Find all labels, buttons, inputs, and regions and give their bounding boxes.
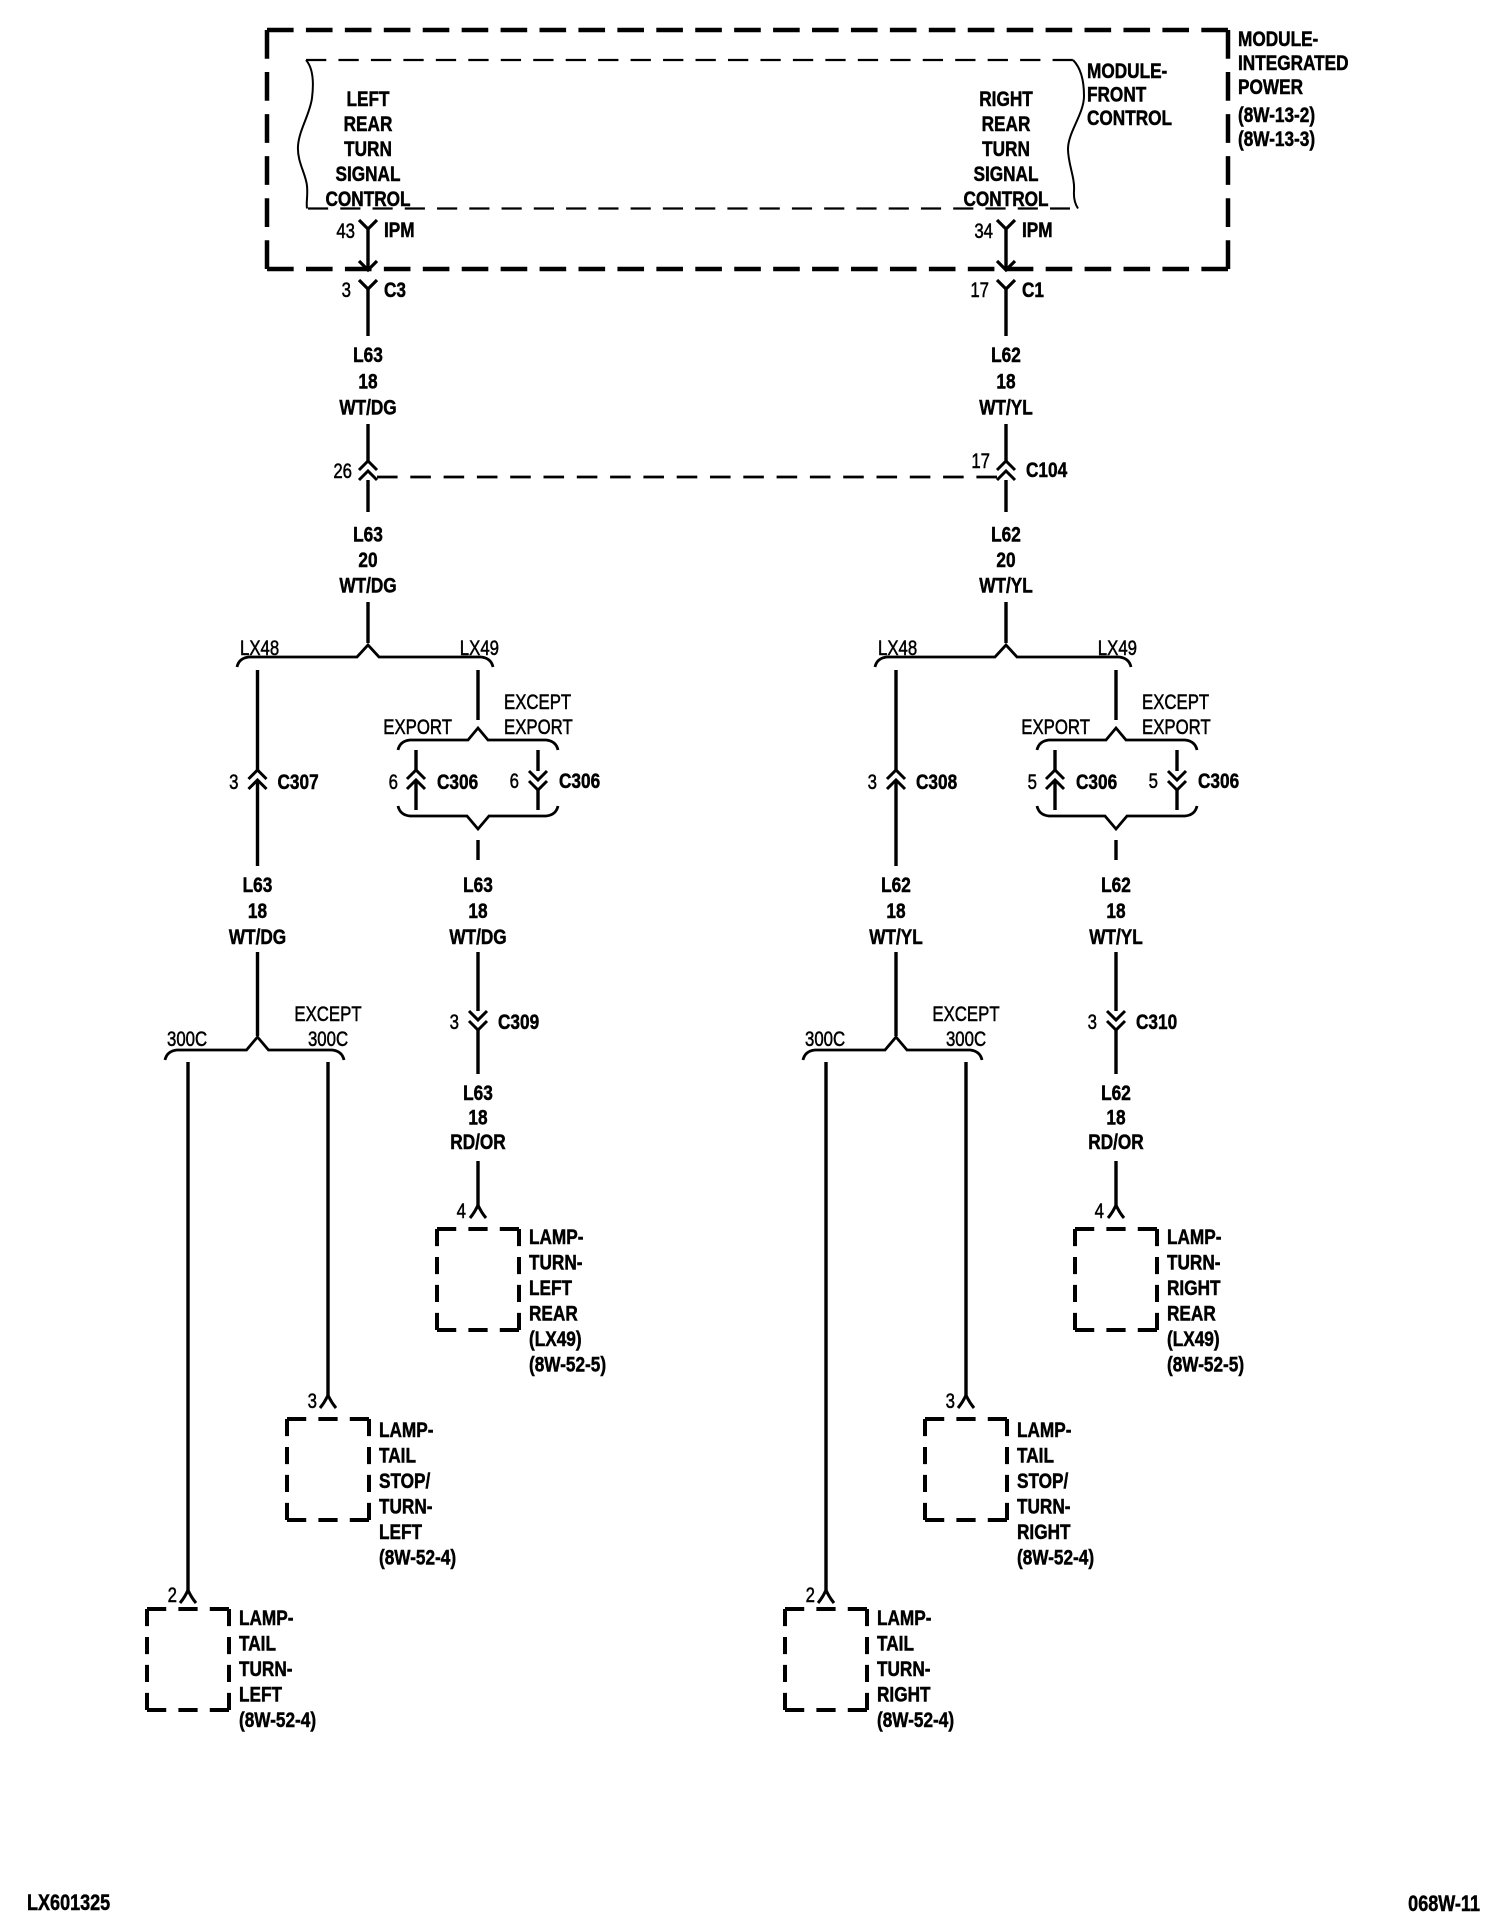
svg-text:TURN-: TURN- bbox=[1167, 1252, 1221, 1275]
svg-text:LAMP-: LAMP- bbox=[1167, 1227, 1221, 1250]
svg-text:L62: L62 bbox=[991, 345, 1021, 368]
svg-text:LAMP-: LAMP- bbox=[239, 1608, 293, 1631]
svg-text:LAMP-: LAMP- bbox=[379, 1420, 433, 1443]
svg-text:LX48: LX48 bbox=[240, 637, 279, 660]
svg-text:20: 20 bbox=[358, 550, 377, 573]
svg-text:300C: 300C bbox=[167, 1028, 207, 1051]
svg-text:TURN: TURN bbox=[982, 139, 1030, 162]
svg-text:5: 5 bbox=[1149, 770, 1158, 793]
svg-text:LAMP-: LAMP- bbox=[1017, 1420, 1071, 1443]
svg-text:INTEGRATED: INTEGRATED bbox=[1238, 53, 1349, 76]
svg-text:IPM: IPM bbox=[384, 220, 415, 243]
svg-text:RIGHT: RIGHT bbox=[877, 1684, 931, 1707]
svg-text:RIGHT: RIGHT bbox=[1167, 1278, 1221, 1301]
svg-text:6: 6 bbox=[510, 770, 519, 793]
svg-text:43: 43 bbox=[336, 220, 355, 243]
svg-text:TURN-: TURN- bbox=[1017, 1496, 1071, 1519]
svg-text:L62: L62 bbox=[991, 524, 1021, 547]
svg-text:RD/OR: RD/OR bbox=[1088, 1132, 1144, 1155]
svg-text:IPM: IPM bbox=[1022, 220, 1053, 243]
svg-text:EXPORT: EXPORT bbox=[1142, 716, 1211, 739]
svg-text:3: 3 bbox=[868, 771, 877, 794]
svg-text:(8W-13-3): (8W-13-3) bbox=[1238, 129, 1315, 152]
svg-text:C307: C307 bbox=[278, 772, 319, 795]
svg-text:CONTROL: CONTROL bbox=[325, 189, 410, 212]
svg-text:3: 3 bbox=[450, 1011, 459, 1034]
svg-text:EXCEPT: EXCEPT bbox=[932, 1003, 1000, 1026]
svg-text:TURN-: TURN- bbox=[379, 1496, 433, 1519]
svg-text:EXPORT: EXPORT bbox=[504, 716, 573, 739]
svg-text:WT/DG: WT/DG bbox=[449, 927, 506, 950]
svg-text:(8W-52-4): (8W-52-4) bbox=[877, 1710, 954, 1733]
svg-text:3: 3 bbox=[1088, 1011, 1097, 1034]
svg-text:C306: C306 bbox=[559, 771, 600, 794]
svg-text:C310: C310 bbox=[1136, 1012, 1177, 1035]
svg-text:(8W-52-4): (8W-52-4) bbox=[239, 1710, 316, 1733]
svg-text:LX601325: LX601325 bbox=[27, 1891, 110, 1915]
svg-text:300C: 300C bbox=[308, 1028, 348, 1051]
svg-text:WT/YL: WT/YL bbox=[869, 927, 923, 950]
svg-text:LAMP-: LAMP- bbox=[877, 1608, 931, 1631]
svg-text:TURN-: TURN- bbox=[529, 1252, 583, 1275]
svg-text:L63: L63 bbox=[463, 1083, 493, 1106]
svg-text:TURN-: TURN- bbox=[877, 1659, 931, 1682]
svg-text:L63: L63 bbox=[353, 524, 383, 547]
svg-text:18: 18 bbox=[468, 901, 487, 924]
svg-text:MODULE-: MODULE- bbox=[1238, 29, 1318, 52]
svg-text:C306: C306 bbox=[437, 772, 478, 795]
svg-text:WT/YL: WT/YL bbox=[1089, 927, 1143, 950]
svg-text:TAIL: TAIL bbox=[379, 1445, 416, 1468]
svg-text:WT/DG: WT/DG bbox=[229, 927, 286, 950]
svg-text:3: 3 bbox=[342, 279, 351, 302]
svg-text:20: 20 bbox=[996, 550, 1015, 573]
svg-text:LAMP-: LAMP- bbox=[529, 1227, 583, 1250]
svg-text:(8W-52-5): (8W-52-5) bbox=[1167, 1354, 1244, 1377]
svg-text:REAR: REAR bbox=[529, 1303, 578, 1326]
svg-text:(8W-52-4): (8W-52-4) bbox=[1017, 1547, 1094, 1570]
svg-text:(8W-13-2): (8W-13-2) bbox=[1238, 105, 1315, 128]
svg-text:WT/DG: WT/DG bbox=[339, 575, 396, 598]
svg-text:L63: L63 bbox=[243, 875, 273, 898]
svg-text:C308: C308 bbox=[916, 772, 957, 795]
svg-text:EXCEPT: EXCEPT bbox=[1142, 691, 1210, 714]
svg-text:068W-11: 068W-11 bbox=[1408, 1892, 1480, 1916]
svg-text:18: 18 bbox=[886, 901, 905, 924]
svg-text:REAR: REAR bbox=[982, 114, 1031, 137]
svg-text:4: 4 bbox=[1095, 1200, 1105, 1223]
svg-text:EXPORT: EXPORT bbox=[1021, 716, 1090, 739]
svg-text:TURN-: TURN- bbox=[239, 1659, 293, 1682]
svg-text:STOP/: STOP/ bbox=[379, 1471, 431, 1494]
svg-text:L62: L62 bbox=[1101, 875, 1131, 898]
svg-text:TAIL: TAIL bbox=[877, 1633, 914, 1656]
svg-text:17: 17 bbox=[971, 450, 990, 473]
svg-text:TAIL: TAIL bbox=[239, 1633, 276, 1656]
svg-text:L62: L62 bbox=[881, 875, 911, 898]
svg-text:LEFT: LEFT bbox=[379, 1522, 422, 1545]
svg-text:MODULE-: MODULE- bbox=[1087, 61, 1167, 84]
svg-text:26: 26 bbox=[333, 460, 352, 483]
svg-text:3: 3 bbox=[946, 1390, 955, 1413]
svg-text:SIGNAL: SIGNAL bbox=[973, 164, 1038, 187]
svg-text:L63: L63 bbox=[463, 875, 493, 898]
svg-text:TURN: TURN bbox=[344, 139, 392, 162]
svg-text:CONTROL: CONTROL bbox=[1087, 108, 1172, 131]
svg-text:WT/DG: WT/DG bbox=[339, 397, 396, 420]
svg-text:C1: C1 bbox=[1022, 280, 1044, 303]
svg-text:C306: C306 bbox=[1076, 772, 1117, 795]
svg-text:POWER: POWER bbox=[1238, 77, 1303, 100]
svg-text:3: 3 bbox=[229, 771, 238, 794]
svg-text:C104: C104 bbox=[1026, 460, 1067, 483]
svg-text:LEFT: LEFT bbox=[239, 1684, 282, 1707]
svg-text:RIGHT: RIGHT bbox=[979, 89, 1033, 112]
svg-text:2: 2 bbox=[168, 1584, 177, 1607]
svg-text:FRONT: FRONT bbox=[1087, 84, 1147, 107]
svg-text:18: 18 bbox=[468, 1107, 487, 1130]
svg-text:WT/YL: WT/YL bbox=[979, 575, 1033, 598]
svg-text:3: 3 bbox=[308, 1390, 317, 1413]
svg-text:C309: C309 bbox=[498, 1012, 539, 1035]
svg-text:LX49: LX49 bbox=[460, 637, 499, 660]
svg-text:300C: 300C bbox=[805, 1028, 845, 1051]
svg-text:STOP/: STOP/ bbox=[1017, 1471, 1069, 1494]
svg-text:L62: L62 bbox=[1101, 1083, 1131, 1106]
svg-text:300C: 300C bbox=[946, 1028, 986, 1051]
svg-text:18: 18 bbox=[248, 901, 267, 924]
svg-text:(8W-52-5): (8W-52-5) bbox=[529, 1354, 606, 1377]
svg-text:LX48: LX48 bbox=[878, 637, 917, 660]
svg-text:L63: L63 bbox=[353, 345, 383, 368]
svg-text:18: 18 bbox=[358, 371, 377, 394]
svg-text:WT/YL: WT/YL bbox=[979, 397, 1033, 420]
svg-text:EXCEPT: EXCEPT bbox=[294, 1003, 362, 1026]
svg-text:(LX49): (LX49) bbox=[529, 1329, 582, 1352]
svg-text:17: 17 bbox=[970, 279, 989, 302]
svg-text:18: 18 bbox=[1106, 901, 1125, 924]
svg-text:EXCEPT: EXCEPT bbox=[504, 691, 572, 714]
svg-text:SIGNAL: SIGNAL bbox=[335, 164, 400, 187]
svg-text:34: 34 bbox=[974, 220, 993, 243]
svg-text:6: 6 bbox=[389, 771, 398, 794]
svg-text:C306: C306 bbox=[1198, 771, 1239, 794]
svg-text:LEFT: LEFT bbox=[346, 89, 389, 112]
svg-text:EXPORT: EXPORT bbox=[383, 716, 452, 739]
svg-text:CONTROL: CONTROL bbox=[963, 189, 1048, 212]
svg-text:REAR: REAR bbox=[344, 114, 393, 137]
svg-text:LX49: LX49 bbox=[1098, 637, 1137, 660]
svg-text:TAIL: TAIL bbox=[1017, 1445, 1054, 1468]
svg-text:(LX49): (LX49) bbox=[1167, 1329, 1220, 1352]
svg-text:RD/OR: RD/OR bbox=[450, 1132, 506, 1155]
svg-text:LEFT: LEFT bbox=[529, 1278, 572, 1301]
svg-text:18: 18 bbox=[1106, 1107, 1125, 1130]
svg-text:4: 4 bbox=[457, 1200, 467, 1223]
svg-text:5: 5 bbox=[1028, 771, 1037, 794]
svg-text:18: 18 bbox=[996, 371, 1015, 394]
svg-text:REAR: REAR bbox=[1167, 1303, 1216, 1326]
svg-text:RIGHT: RIGHT bbox=[1017, 1522, 1071, 1545]
svg-text:C3: C3 bbox=[384, 280, 406, 303]
svg-text:2: 2 bbox=[806, 1584, 815, 1607]
svg-text:(8W-52-4): (8W-52-4) bbox=[379, 1547, 456, 1570]
